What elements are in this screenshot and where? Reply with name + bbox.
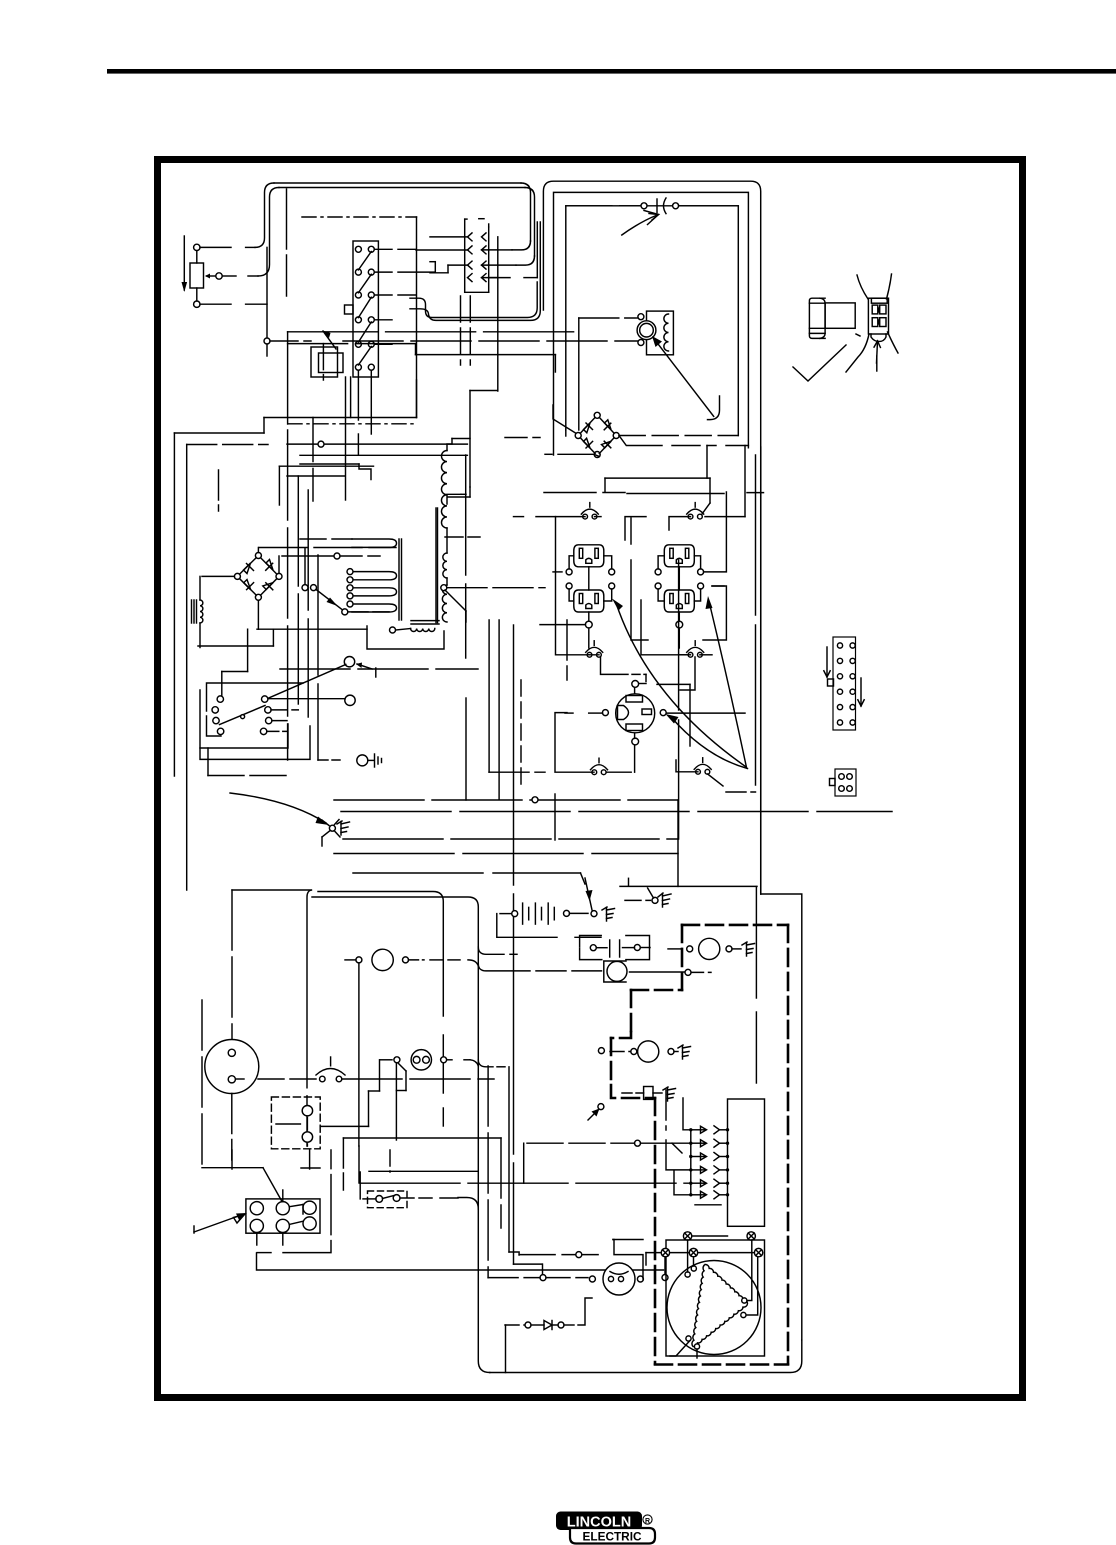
connector J1 (polarity plug) <box>464 219 466 292</box>
main ground node N1 <box>329 825 335 831</box>
DPDT switch S3 <box>217 696 223 702</box>
bus y354.6 <box>416 354 556 356</box>
duplex receptacle R3 <box>664 545 694 567</box>
right rail column <box>704 492 727 572</box>
wires below R2/R4 <box>540 624 585 626</box>
small dash left of J2 <box>856 334 860 336</box>
right side jog wires <box>712 585 724 587</box>
engine box left small stubs <box>565 430 567 436</box>
check mark <box>793 345 846 381</box>
duplex receptacle R1 <box>574 545 604 567</box>
schematic border frame <box>158 160 1023 1398</box>
D1 diodes <box>584 423 591 433</box>
stator wires <box>687 1240 689 1272</box>
K2 bottom bracket <box>283 1150 331 1253</box>
wire y433 to left rail <box>174 432 264 434</box>
breaker CB7 <box>320 1076 326 1082</box>
wire: rheostat top to loop A <box>200 246 231 248</box>
verticals mid-bottom <box>343 1137 501 1139</box>
bus y872 bends to N2 <box>353 872 581 874</box>
steps above transformer <box>359 464 371 480</box>
curved annotation arrow to points <box>622 216 656 236</box>
left rail 2 <box>187 444 268 446</box>
terminal node T <box>264 338 270 344</box>
J2 bottom latch <box>871 334 886 342</box>
pilot lamp L1 <box>344 657 354 667</box>
engine enclosure inner rect <box>566 206 739 436</box>
stator frame <box>666 1240 765 1356</box>
shutdown solenoid SOL2 <box>638 1041 659 1062</box>
L1 pointer <box>357 664 372 669</box>
magneto condenser C1 <box>590 945 596 951</box>
dash-dot y424 <box>288 423 417 425</box>
loop wire via bottom <box>257 600 259 629</box>
fuel solenoid SOL1 <box>699 938 720 959</box>
diode D3 row <box>505 1324 525 1326</box>
circuit breaker CB6 <box>696 769 701 774</box>
loop A top edge <box>274 182 521 184</box>
key switch node N3 <box>652 897 658 903</box>
stator coil terminals <box>685 1272 690 1277</box>
D2 left to choke L2 <box>202 575 234 577</box>
choke/solenoid L1 <box>311 347 338 377</box>
wire y800 <box>321 837 323 846</box>
vertical x286.5 upper <box>286 189 288 296</box>
N3 ground <box>658 893 663 897</box>
circuit breaker CB2 <box>688 514 693 519</box>
stator terminal row <box>646 1252 759 1254</box>
wire y318 into coil <box>579 317 638 319</box>
stator terminals <box>683 1232 691 1240</box>
rheostat adjust arrow <box>183 236 185 290</box>
R5 wires <box>634 688 636 693</box>
D2 top wire to y547.5 <box>257 548 259 553</box>
breaker points P1 (capacitor gap) on inner top <box>566 205 640 207</box>
bus y331.8 <box>288 331 579 333</box>
pilot lamp L2 <box>345 695 355 705</box>
loop B second edge <box>279 187 525 189</box>
receptacle interconnects <box>588 567 590 590</box>
panel outer rails bottom <box>555 713 594 773</box>
S2 wire from bridge <box>304 548 306 585</box>
T1 bottom winding <box>411 620 439 622</box>
curved annotation arrows <box>616 603 746 767</box>
ignition source B1 <box>607 961 627 981</box>
wire bundle steps to starter <box>487 1066 489 1278</box>
inner box around R3/R4 <box>631 518 648 640</box>
long wire y341 to engine coil <box>343 340 640 342</box>
big engine gauge M1 <box>205 1040 259 1094</box>
S2 polarity blade <box>302 585 308 591</box>
rounded wire loops tops <box>232 889 311 891</box>
relay board K2 <box>246 1199 320 1233</box>
arrow to resistor wire <box>598 1104 604 1110</box>
wire pair S-bends into lower loop <box>410 282 537 318</box>
S1 pin wires right <box>374 248 392 250</box>
S1 bottom pin wires down <box>357 371 359 420</box>
J3 arrows <box>826 647 828 677</box>
J2 wire arrow <box>877 341 878 363</box>
plug housing bolt <box>809 298 825 338</box>
J5 right rect block <box>728 1099 765 1226</box>
bridge rectifier D2 <box>255 553 261 559</box>
wires bottom of S3 area <box>318 759 340 761</box>
L1 wire left (diagonal) <box>268 665 346 699</box>
hour meter lamp L3 <box>372 949 393 970</box>
S1 wire steps to J1 <box>434 262 436 272</box>
ground indicator G1 <box>357 755 368 766</box>
wire: rheostat bottom <box>200 303 231 305</box>
rheostat R1 (output control) <box>194 244 200 250</box>
choke L2 <box>191 600 193 623</box>
circuit breaker CB3 <box>587 652 592 657</box>
T1 secondary mid/lower <box>443 553 447 578</box>
D2 right to primary top terminal <box>278 556 280 573</box>
wire: rheostat wiper to loop B <box>222 275 236 277</box>
dash-dot chassis line top <box>302 216 417 218</box>
top right jog <box>761 894 802 1340</box>
verticals mid <box>416 380 418 418</box>
ignition coil T2 <box>647 311 674 355</box>
node branch wires <box>322 820 329 826</box>
plug body <box>825 303 855 328</box>
T1 primary terminals <box>347 569 353 575</box>
long wire to starter area <box>257 1253 664 1270</box>
verticals between buses <box>465 698 467 800</box>
switch bank S1 (mode switch) <box>353 241 378 377</box>
engine enclosure outer rounded box <box>543 181 760 894</box>
branch wires at service rail <box>478 947 504 954</box>
J2 flying leads <box>857 275 868 299</box>
engine enclosure rect 2 <box>554 192 749 455</box>
wires from S3 right to mid verticals <box>271 709 298 711</box>
transformer T1 primary hairpins <box>300 538 352 540</box>
T1 secondary winding upper <box>441 451 447 529</box>
battery BAT1 <box>512 911 518 917</box>
4-pin connector block J2 <box>868 298 888 334</box>
annotation arrow to N2 <box>585 878 592 910</box>
thick dashed boundary (engine group) <box>682 924 788 927</box>
vertical from dash-dot corner down <box>416 217 418 418</box>
node annotation arrow <box>230 793 326 823</box>
D1 wires <box>505 437 540 439</box>
K2 diag wire from top <box>263 1168 282 1202</box>
panel wiring left col top <box>595 516 602 518</box>
bottom rounded enclosure <box>490 1340 802 1373</box>
wire y853.5 <box>334 853 678 855</box>
wire y1277.6 with circle <box>540 1275 546 1281</box>
4-pin connector J4 <box>835 769 856 796</box>
long verticals right of panel <box>678 560 680 839</box>
T1 core <box>398 539 400 620</box>
starter motor M2 <box>603 1263 635 1295</box>
long diagonal arrow to coil <box>655 340 714 416</box>
connector rows J5 (engine harness) <box>689 1128 692 1131</box>
wire y811.5 long <box>341 811 892 813</box>
wire box to right <box>620 885 757 887</box>
long mid verticals x287-318 <box>287 430 289 760</box>
bridge rectifier D1 (engine) <box>594 412 600 418</box>
wires below CB3/CB4 <box>601 657 629 674</box>
S1 left tab <box>345 305 354 314</box>
wire y839 <box>343 838 678 840</box>
S3 wire box outlines <box>207 683 304 711</box>
double breaker CB8 <box>411 1050 431 1070</box>
circuit breaker CB4 <box>688 652 693 657</box>
wire y1255 <box>519 1254 600 1256</box>
long verticals from switch area <box>287 332 289 424</box>
duplex receptacle R2 <box>574 590 604 612</box>
wires under relay <box>306 1144 308 1146</box>
S4 wire right <box>400 1197 432 1199</box>
small switch S4 (dashed) <box>368 1191 408 1208</box>
wire row4 from J1 right <box>490 277 510 279</box>
Lincoln Electric logo <box>556 1512 655 1544</box>
ground symbol at node <box>337 821 342 824</box>
stator circle <box>667 1261 761 1355</box>
12-pin connector J3 <box>833 637 856 730</box>
header rule <box>107 69 1116 74</box>
K2 annotation arrow <box>194 1214 244 1232</box>
svg-text:R: R <box>645 1518 650 1525</box>
duplex receptacle R4 <box>664 590 694 612</box>
left rail column 1 <box>556 517 590 655</box>
twist-lock receptacle R5 <box>616 694 655 733</box>
dashed relay K1 <box>271 1097 320 1149</box>
K2 pin wires <box>282 1190 284 1202</box>
secondary taps <box>441 585 447 591</box>
receptacle side terminals <box>566 569 572 575</box>
battery ground node N2 <box>591 911 597 917</box>
lower-left bus wires <box>208 775 290 777</box>
starter wires <box>613 1240 643 1280</box>
left rail to relay board <box>201 1000 203 1168</box>
svg-text:ELECTRIC: ELECTRIC <box>583 1530 642 1544</box>
wire y456 <box>300 454 467 456</box>
resistor R2 <box>644 1087 653 1100</box>
secondary top tap to vertical <box>447 494 461 504</box>
circuit breaker CB1 <box>583 514 588 519</box>
J5 left feed wires <box>690 1130 692 1195</box>
stator winding (delta) <box>692 1264 748 1346</box>
circuit breaker CB5 <box>592 770 597 775</box>
bus y343.6 <box>288 343 416 345</box>
